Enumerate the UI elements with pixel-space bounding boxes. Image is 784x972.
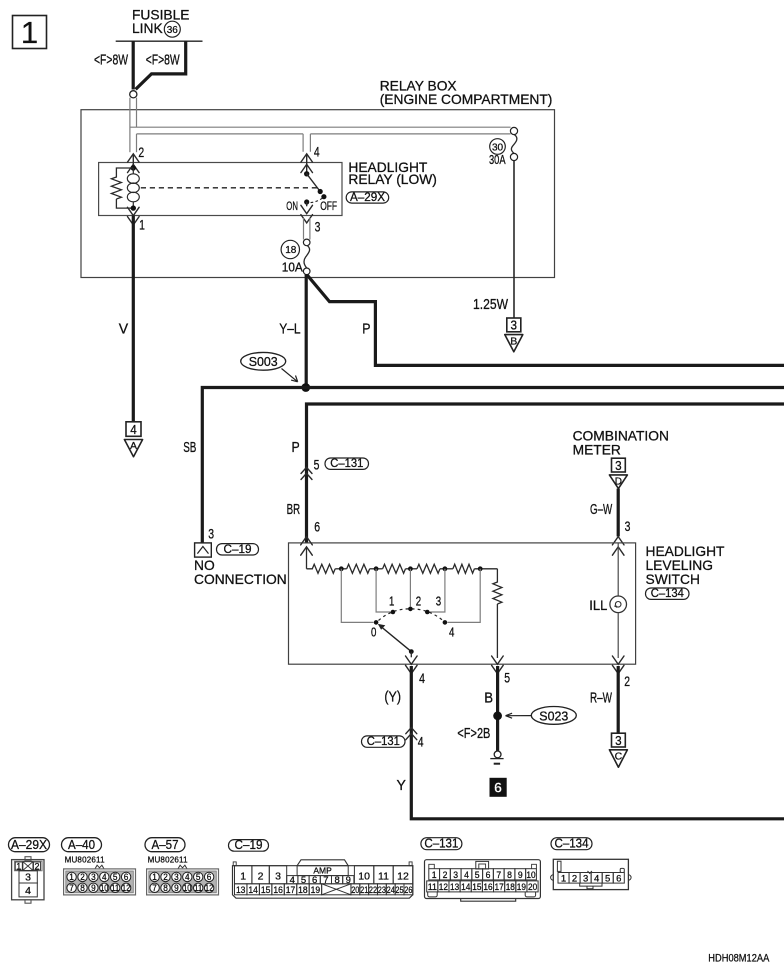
svg-text:HEADLIGHT: HEADLIGHT xyxy=(646,544,726,559)
svg-text:19: 19 xyxy=(311,885,321,895)
resistor chain R3 xyxy=(383,564,406,573)
connector A-29X pinout xyxy=(25,857,31,861)
relay switch blade end dot xyxy=(318,189,323,194)
node d xyxy=(440,568,453,570)
svg-text:4: 4 xyxy=(102,872,107,882)
svg-text:23: 23 xyxy=(378,885,386,895)
fuse 30 bottom terminal xyxy=(510,153,517,160)
svg-text:3: 3 xyxy=(315,219,321,235)
page connector C xyxy=(612,733,626,747)
svg-text:1: 1 xyxy=(139,218,145,234)
selector dashed arc xyxy=(379,609,444,621)
svg-text:20: 20 xyxy=(351,885,359,895)
svg-text:1: 1 xyxy=(21,15,38,50)
relay switch dashed throw arc xyxy=(311,198,323,203)
svg-text:SB: SB xyxy=(183,440,196,456)
leveling switch pin 4 wire and arrow xyxy=(410,652,412,658)
svg-text:10A: 10A xyxy=(282,261,304,275)
svg-text:<F>8W: <F>8W xyxy=(94,53,128,69)
svg-text:12: 12 xyxy=(205,883,213,893)
svg-text:10: 10 xyxy=(526,870,535,880)
svg-text:4: 4 xyxy=(418,735,424,751)
contact 1 xyxy=(391,610,396,615)
wire G-W from meter to leveling switch xyxy=(617,489,620,537)
circled 30 label xyxy=(490,139,506,155)
svg-text:14: 14 xyxy=(248,885,258,895)
svg-text:12: 12 xyxy=(439,882,448,892)
svg-text:25: 25 xyxy=(395,885,403,895)
svg-text:12: 12 xyxy=(397,871,409,883)
svg-text:3: 3 xyxy=(25,872,31,884)
connector C-19 pinout xyxy=(229,840,269,852)
svg-text:A–40: A–40 xyxy=(68,838,95,852)
svg-text:NO: NO xyxy=(194,558,215,573)
wire fusible link right drop xyxy=(136,41,186,89)
svg-text:C–134: C–134 xyxy=(651,588,685,600)
svg-text:0: 0 xyxy=(371,626,376,640)
contact 4 xyxy=(443,620,448,625)
svg-text:9: 9 xyxy=(518,870,523,880)
svg-text:30: 30 xyxy=(492,142,504,153)
svg-text:D: D xyxy=(615,476,622,487)
ground symbol xyxy=(494,751,501,758)
inline connector marker on Y wire xyxy=(406,728,417,734)
no connection connector C-19 xyxy=(195,543,212,557)
relay switch OFF contact xyxy=(321,194,326,199)
tap wire node b to contact 1 xyxy=(376,569,390,612)
circled 18 label xyxy=(281,240,299,258)
fuse 30 top terminal xyxy=(510,127,517,134)
junction node S003 xyxy=(301,383,310,392)
svg-text:18: 18 xyxy=(298,885,308,895)
svg-text:9: 9 xyxy=(174,883,179,893)
svg-text:17: 17 xyxy=(495,882,504,892)
svg-text:S023: S023 xyxy=(539,708,568,723)
svg-text:5: 5 xyxy=(314,457,320,473)
relay box (engine compartment) outline xyxy=(81,110,555,278)
svg-text:6: 6 xyxy=(494,781,502,797)
svg-text:G–W: G–W xyxy=(590,502,612,518)
splice S023 label xyxy=(531,707,576,725)
wire B from pin 5 to ground xyxy=(496,666,499,751)
bus wire 2 from P corner to right edge xyxy=(307,404,784,543)
svg-text:11: 11 xyxy=(194,883,202,893)
svg-text:10: 10 xyxy=(183,883,191,893)
node c xyxy=(406,568,418,570)
svg-text:17: 17 xyxy=(286,885,296,895)
svg-text:36: 36 xyxy=(167,25,179,36)
relay pin 3 arrow xyxy=(306,202,308,206)
svg-text:3: 3 xyxy=(511,318,518,333)
svg-text:18: 18 xyxy=(285,245,297,256)
svg-text:11: 11 xyxy=(111,883,119,893)
relay pin 2 arrow xyxy=(128,154,140,162)
svg-text:R–W: R–W xyxy=(590,691,612,707)
leveling switch pin 6 arrow xyxy=(301,537,313,545)
svg-text:15: 15 xyxy=(261,885,271,895)
node b xyxy=(370,568,383,570)
tap wire node d to contact 3 xyxy=(430,569,445,612)
svg-text:A–29X: A–29X xyxy=(11,838,48,852)
relay pin 1 arrow xyxy=(128,207,140,215)
svg-text:1: 1 xyxy=(432,870,437,880)
wire R-W from pin 2 to connector C xyxy=(617,666,620,733)
svg-text:LEVELING: LEVELING xyxy=(646,558,713,573)
page number 1 box xyxy=(13,16,47,49)
tap wire node e to contact 4 xyxy=(448,569,481,623)
tap wire node c to contact 2 xyxy=(409,569,411,607)
svg-text:Y: Y xyxy=(397,778,407,794)
svg-text:4: 4 xyxy=(314,145,320,161)
relay switch blade xyxy=(307,174,321,192)
resistor chain R1 xyxy=(307,564,336,573)
fusible link bus bar xyxy=(116,40,203,42)
headlight relay inner box xyxy=(99,163,342,216)
svg-text:14: 14 xyxy=(461,882,470,892)
svg-text:13: 13 xyxy=(236,885,246,895)
wire hollow horizontal to fuse 30 xyxy=(130,126,511,128)
svg-text:2: 2 xyxy=(80,872,85,882)
svg-text:HDH08M12AA: HDH08M12AA xyxy=(708,953,770,965)
connector C-131 pinout xyxy=(421,838,462,850)
svg-text:2: 2 xyxy=(572,873,577,884)
svg-text:21: 21 xyxy=(360,885,368,895)
relay coil top node xyxy=(131,165,136,170)
svg-text:26: 26 xyxy=(404,885,412,895)
svg-text:CONNECTION: CONNECTION xyxy=(194,572,287,587)
svg-text:4: 4 xyxy=(464,870,469,880)
svg-text:5: 5 xyxy=(605,873,610,884)
svg-text:1: 1 xyxy=(240,871,246,883)
svg-text:6: 6 xyxy=(314,520,320,536)
svg-text:3: 3 xyxy=(208,526,214,542)
relay coil bottom node xyxy=(131,205,136,210)
svg-text:P: P xyxy=(362,322,370,338)
svg-text:B: B xyxy=(510,335,517,347)
svg-text:3: 3 xyxy=(583,873,588,884)
svg-text:S003: S003 xyxy=(249,354,278,369)
svg-text:C–131: C–131 xyxy=(367,736,400,748)
illumination lamp ILL xyxy=(610,596,627,613)
svg-text:A: A xyxy=(130,440,137,452)
svg-text:3: 3 xyxy=(91,872,96,882)
svg-text:7: 7 xyxy=(69,883,74,893)
wire Y-L from fuse 18 to junction S003 xyxy=(305,274,308,387)
lamp branch wire xyxy=(617,543,619,596)
svg-text:3: 3 xyxy=(615,458,622,473)
svg-text:A–29X: A–29X xyxy=(350,192,385,204)
svg-text:3: 3 xyxy=(625,519,631,535)
svg-text:7: 7 xyxy=(152,883,157,893)
svg-text:LINK: LINK xyxy=(132,21,163,36)
wire hollow vertical from fusible link to relay pin 2 xyxy=(129,98,131,153)
svg-text:6: 6 xyxy=(486,870,491,880)
svg-text:<F>2B: <F>2B xyxy=(457,726,490,742)
splice S003 label xyxy=(241,352,286,370)
svg-text:3: 3 xyxy=(615,733,622,748)
resistor chain R2 xyxy=(347,564,370,573)
svg-text:18: 18 xyxy=(506,882,515,892)
connector C-134 pinout xyxy=(551,838,592,850)
svg-text:A–57: A–57 xyxy=(152,838,179,852)
svg-text:ILL: ILL xyxy=(589,597,607,613)
svg-text:5: 5 xyxy=(196,872,201,882)
leveling switch pin 5 arrow xyxy=(492,656,504,664)
svg-text:6: 6 xyxy=(207,872,212,882)
fuse 18 element xyxy=(304,246,309,268)
wire fusible link left drop xyxy=(132,41,135,89)
svg-text:C–131: C–131 xyxy=(424,836,458,850)
svg-text:3: 3 xyxy=(275,871,281,883)
contact 3 xyxy=(425,610,430,615)
svg-text:9: 9 xyxy=(91,883,96,893)
wire V from relay pin 1 to connector A xyxy=(132,216,135,422)
contact 0 xyxy=(374,620,379,625)
wire Y from pin 4 to right edge xyxy=(411,666,784,819)
svg-text:2: 2 xyxy=(258,871,264,883)
circled 36 xyxy=(164,21,180,37)
svg-text:4: 4 xyxy=(449,626,454,640)
svg-text:11: 11 xyxy=(428,882,437,892)
connector A-57 pinout xyxy=(145,838,185,852)
leveling switch pin 2 arrow xyxy=(612,656,624,664)
svg-text:2: 2 xyxy=(163,872,168,882)
svg-text:BR: BR xyxy=(287,502,301,518)
svg-text:1: 1 xyxy=(69,872,74,882)
svg-text:2: 2 xyxy=(443,870,448,880)
svg-text:16: 16 xyxy=(483,882,492,892)
svg-text:2: 2 xyxy=(138,145,144,161)
lamp wire to pin 2 xyxy=(617,613,619,658)
relay pin 4 arrow xyxy=(301,154,313,162)
svg-text:15: 15 xyxy=(472,882,481,892)
node e xyxy=(474,568,497,570)
wire hollow vertical relay pin 3 to fuse 18 xyxy=(304,218,310,240)
svg-text:12: 12 xyxy=(122,883,130,893)
svg-text:2: 2 xyxy=(34,862,39,872)
relay switch ON contact xyxy=(304,199,309,204)
headlight leveling switch box xyxy=(289,543,636,664)
svg-text:C–134: C–134 xyxy=(555,836,589,850)
fuse 18 bottom terminal xyxy=(303,268,310,275)
bus wire 1 from SB corner through S003 to right edge xyxy=(202,388,784,543)
svg-text:3: 3 xyxy=(436,595,441,609)
svg-text:OFF: OFF xyxy=(320,200,337,213)
relay actuation dashed line xyxy=(141,187,318,189)
inline connector marker on P wire xyxy=(301,467,312,473)
connector label C-131 on P wire xyxy=(325,458,369,469)
relay coil xyxy=(127,174,139,184)
leveling switch pin 3 arrow xyxy=(612,537,624,545)
svg-text:MU802611: MU802611 xyxy=(148,855,188,864)
svg-text:13: 13 xyxy=(450,882,459,892)
svg-text:8: 8 xyxy=(507,870,512,880)
svg-text:4: 4 xyxy=(130,422,137,437)
svg-text:Y–L: Y–L xyxy=(279,322,300,338)
svg-text:8: 8 xyxy=(80,883,85,893)
page connector D xyxy=(612,458,626,472)
svg-text:1: 1 xyxy=(152,872,157,882)
wire 1.25W from fuse 30 down to connector B xyxy=(513,161,515,318)
svg-text:5: 5 xyxy=(475,870,480,880)
svg-text:P: P xyxy=(292,440,300,456)
svg-text:2: 2 xyxy=(416,594,421,608)
svg-text:<F>8W: <F>8W xyxy=(146,53,180,69)
svg-text:RELAY (LOW): RELAY (LOW) xyxy=(348,172,436,187)
svg-text:6: 6 xyxy=(124,872,129,882)
svg-text:30A: 30A xyxy=(489,153,506,167)
connector label C-134 xyxy=(646,588,690,599)
resistor chain R4 xyxy=(417,564,440,573)
svg-text:1: 1 xyxy=(16,862,21,872)
fuse 30 element xyxy=(511,135,516,154)
svg-text:11: 11 xyxy=(378,871,389,883)
svg-text:C: C xyxy=(615,751,623,763)
connector label A-29X bottom xyxy=(9,838,50,852)
svg-text:(Y): (Y) xyxy=(384,690,401,706)
svg-text:1: 1 xyxy=(561,873,566,884)
svg-text:ON: ON xyxy=(286,200,298,213)
svg-text:24: 24 xyxy=(387,885,395,895)
svg-text:MU802611: MU802611 xyxy=(65,855,105,864)
svg-text:4: 4 xyxy=(419,671,425,687)
svg-text:V: V xyxy=(119,322,129,338)
svg-text:20: 20 xyxy=(528,882,537,892)
connector label C-19 xyxy=(217,544,259,555)
svg-text:22: 22 xyxy=(369,885,377,895)
svg-text:5: 5 xyxy=(113,872,118,882)
svg-text:1: 1 xyxy=(389,595,394,609)
connector label C-131 on Y wire xyxy=(362,736,406,747)
ground id black box 6 xyxy=(490,778,507,797)
svg-text:C–19: C–19 xyxy=(224,544,252,556)
wiper arm xyxy=(381,626,412,651)
svg-text:2: 2 xyxy=(624,674,630,690)
svg-text:B: B xyxy=(484,691,493,707)
svg-text:10: 10 xyxy=(358,871,370,883)
svg-text:4: 4 xyxy=(594,873,599,884)
svg-text:5: 5 xyxy=(504,671,510,687)
svg-text:4: 4 xyxy=(185,872,190,882)
wire pin 6 into resistor chain xyxy=(306,547,308,569)
vertical resistor R6 xyxy=(493,569,502,658)
svg-text:C–19: C–19 xyxy=(235,838,263,852)
node a xyxy=(335,568,347,570)
connector label A-29X xyxy=(346,192,389,203)
svg-text:3: 3 xyxy=(174,872,179,882)
svg-text:3: 3 xyxy=(453,870,458,880)
resistor chain R5 xyxy=(453,564,475,573)
svg-text:19: 19 xyxy=(517,882,526,892)
svg-text:6: 6 xyxy=(616,873,621,884)
page connector B xyxy=(507,318,521,332)
svg-text:(ENGINE COMPARTMENT): (ENGINE COMPARTMENT) xyxy=(380,92,553,107)
relay switch top contact xyxy=(304,171,309,176)
svg-text:4: 4 xyxy=(25,885,31,897)
wire hollow vertical to relay pin 4 xyxy=(303,134,310,152)
svg-text:COMBINATION: COMBINATION xyxy=(573,429,669,444)
splice node S023 xyxy=(493,711,502,720)
svg-text:16: 16 xyxy=(273,885,283,895)
svg-text:10: 10 xyxy=(100,883,108,893)
svg-text:C–131: C–131 xyxy=(330,458,363,470)
svg-text:METER: METER xyxy=(573,443,621,458)
svg-text:SWITCH: SWITCH xyxy=(646,572,700,587)
svg-text:1.25W: 1.25W xyxy=(473,297,508,313)
fuse 18 top terminal xyxy=(303,239,310,246)
contact 2 xyxy=(408,607,413,612)
page connector A xyxy=(126,422,141,437)
tap wire node a to contact 0 xyxy=(341,569,373,623)
junction ring to relay box xyxy=(130,91,137,98)
relay resistor xyxy=(111,168,133,208)
wire P branch from fuse to right edge xyxy=(307,275,784,365)
connector A-40 pinout xyxy=(62,838,102,852)
svg-text:8: 8 xyxy=(163,883,168,893)
svg-text:7: 7 xyxy=(496,870,501,880)
